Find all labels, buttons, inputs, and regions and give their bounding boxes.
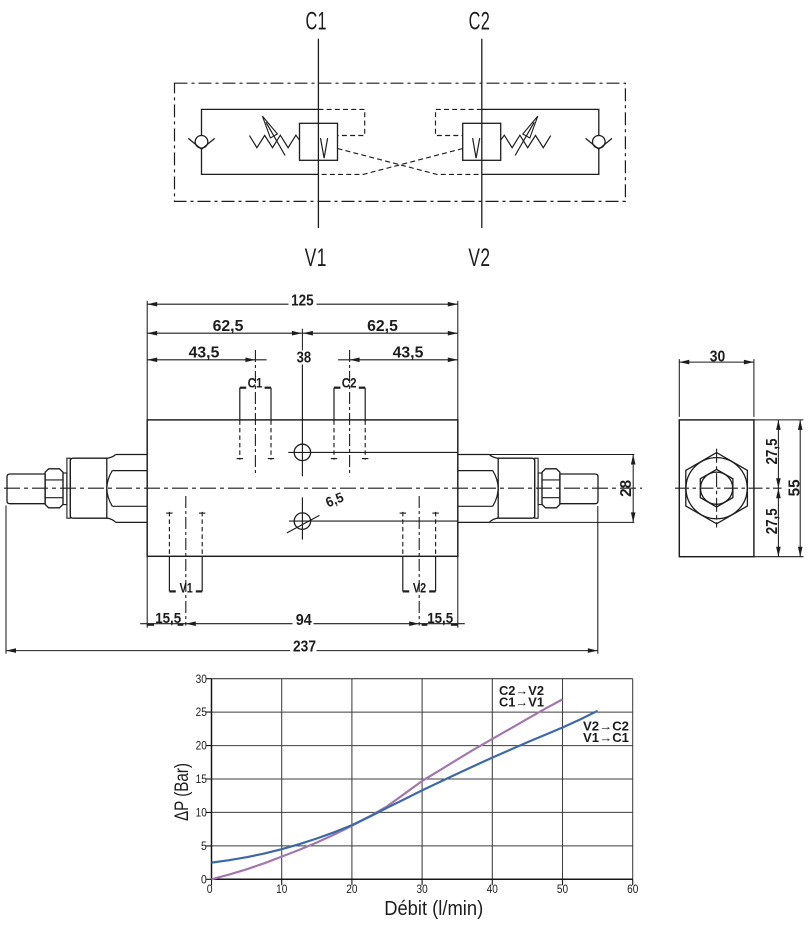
left branch loop wire (202, 109, 319, 174)
right fitting locknut (542, 469, 560, 508)
left fitting spacer (63, 473, 67, 505)
left fitting stem (7, 474, 45, 504)
valve assembly boundary (dash-dot) (175, 83, 626, 201)
side view centerlines (675, 487, 782, 489)
svg-text:15: 15 (196, 772, 207, 786)
front view: valve body with fittings and dimensions (4, 292, 642, 655)
svg-text:C2: C2 (342, 375, 357, 391)
right fitting hex (458, 455, 498, 523)
dimension 43,5 left (147, 345, 266, 362)
curve C2-V2 / C1-V1 (purple) (212, 699, 563, 879)
y axis tick labels (196, 672, 207, 887)
svg-text:10: 10 (196, 806, 207, 820)
hex fitting outer hexagon (686, 453, 748, 524)
CB1 spring (250, 135, 300, 148)
dimension 15,5 left (140, 610, 186, 627)
extension lines for width dimensions (147, 301, 458, 628)
legend V2-C2 V1-C1 (583, 719, 629, 745)
right branch loop wire (482, 109, 599, 174)
CB2 internal pilot line (dashed) (436, 109, 482, 135)
dimension 27,5 top (764, 420, 781, 488)
svg-text:C2: C2 (469, 7, 491, 35)
chart axis ticks (206, 679, 633, 886)
svg-text:V1→C1: V1→C1 (583, 731, 629, 745)
svg-text:5: 5 (201, 839, 207, 853)
svg-text:V2: V2 (413, 579, 426, 595)
chart gridlines (212, 679, 633, 880)
side view outline (679, 420, 754, 557)
svg-text:C1: C1 (305, 7, 327, 35)
dimension 125 (overall body width) (147, 292, 458, 309)
curve V2-C2 / V1-C1 (blue) (212, 711, 598, 863)
body outline (147, 420, 458, 556)
svg-text:30: 30 (417, 882, 428, 896)
CB1 adjustment arrow (262, 116, 285, 155)
svg-text:15,5: 15,5 (155, 610, 181, 627)
svg-text:60: 60 (627, 882, 638, 896)
wire C1-V1 line (317, 39, 319, 228)
counterbalance cartridge CB2 body (463, 123, 501, 160)
port C1 on top face (237, 350, 275, 476)
left fitting locknut (45, 469, 63, 508)
svg-text:15,5: 15,5 (427, 610, 453, 627)
hex chamfer circle (686, 458, 747, 519)
CB2 adjustment arrow (515, 116, 538, 155)
mounting hole top (38 position) (288, 365, 458, 477)
right fitting spacer (538, 473, 542, 505)
svg-text:237: 237 (293, 638, 316, 655)
svg-text:50: 50 (557, 882, 568, 896)
dimension 62,5 right (303, 318, 458, 336)
svg-text:125: 125 (291, 292, 314, 309)
svg-text:40: 40 (487, 882, 498, 896)
wire C2-V2 line (481, 39, 483, 228)
check valve CV1 (188, 136, 214, 150)
dimension 237 (overall length) (6, 506, 598, 656)
dimension 15,5 right (419, 610, 465, 627)
dimension 62,5 left (147, 318, 302, 336)
mounting hole bottom dia 6,5 (287, 497, 458, 539)
extension lines right side (754, 420, 804, 557)
right fitting washer (535, 458, 538, 518)
svg-text:0: 0 (207, 882, 213, 896)
svg-text:55: 55 (786, 479, 803, 496)
dimension 43,5 right (338, 345, 458, 362)
chart axes (212, 679, 633, 880)
legend C2-V2 C1-V1 (499, 684, 544, 710)
performance chart dP vs flow (171, 672, 638, 920)
svg-text:6,5: 6,5 (323, 489, 346, 511)
svg-text:28: 28 (618, 480, 635, 497)
port V1 on bottom face (166, 496, 205, 626)
svg-text:38: 38 (297, 349, 312, 366)
counterbalance cartridge CB1 body (300, 123, 338, 160)
svg-text:V1: V1 (305, 244, 327, 272)
svg-text:27,5: 27,5 (764, 438, 781, 464)
hydraulic schematic: dual counterbalance valve (175, 7, 626, 272)
port C2 on top face (331, 350, 369, 476)
svg-text:25: 25 (196, 705, 207, 719)
dimension 30 (body thickness) (679, 348, 754, 417)
svg-text:94: 94 (296, 612, 312, 629)
inner bore circle (701, 472, 733, 504)
svg-text:62,5: 62,5 (367, 318, 398, 335)
check valve CV2 (586, 136, 612, 150)
inner hexagon (wrench socket) (700, 469, 733, 507)
svg-text:ΔP (Bar): ΔP (Bar) (171, 763, 193, 821)
dimension 94 (186, 612, 419, 629)
svg-text:30: 30 (196, 672, 207, 686)
CB1 cross pilot line to V2 (dashed) (338, 149, 482, 175)
CB1 poppet arrow (321, 138, 328, 158)
x axis tick labels (207, 882, 639, 896)
svg-text:Débit (l/min): Débit (l/min) (384, 898, 483, 920)
svg-text:20: 20 (346, 882, 357, 896)
CB2 poppet arrow (473, 138, 480, 158)
CB1 internal pilot line (dashed) (318, 109, 364, 135)
left fitting washer (67, 458, 70, 518)
svg-text:C1: C1 (248, 375, 263, 391)
side view: body end with hex fitting (675, 348, 804, 556)
main horizontal centerline (dash-dot) (4, 487, 642, 489)
svg-text:62,5: 62,5 (213, 318, 244, 335)
left fitting hex (107, 455, 148, 523)
left fitting collar (70, 458, 107, 518)
svg-text:V2: V2 (468, 244, 490, 272)
port V2 on bottom face (400, 496, 439, 626)
right fitting stem (560, 474, 598, 504)
right fitting collar (498, 458, 535, 518)
dimension 27,5 bottom (764, 488, 781, 557)
CB2 spring (501, 135, 551, 148)
svg-text:43,5: 43,5 (393, 345, 424, 362)
svg-text:43,5: 43,5 (189, 345, 220, 362)
svg-text:C1→V1: C1→V1 (499, 695, 544, 709)
svg-text:20: 20 (196, 739, 207, 753)
CB2 cross pilot line to V1 (dashed) (318, 149, 462, 175)
svg-text:V1: V1 (180, 579, 193, 595)
dimension 55 (body height) (786, 420, 803, 557)
svg-text:30: 30 (710, 348, 726, 365)
svg-text:10: 10 (276, 882, 287, 896)
dimension 28 (hex across flats) (489, 455, 636, 523)
svg-text:27,5: 27,5 (764, 508, 781, 534)
